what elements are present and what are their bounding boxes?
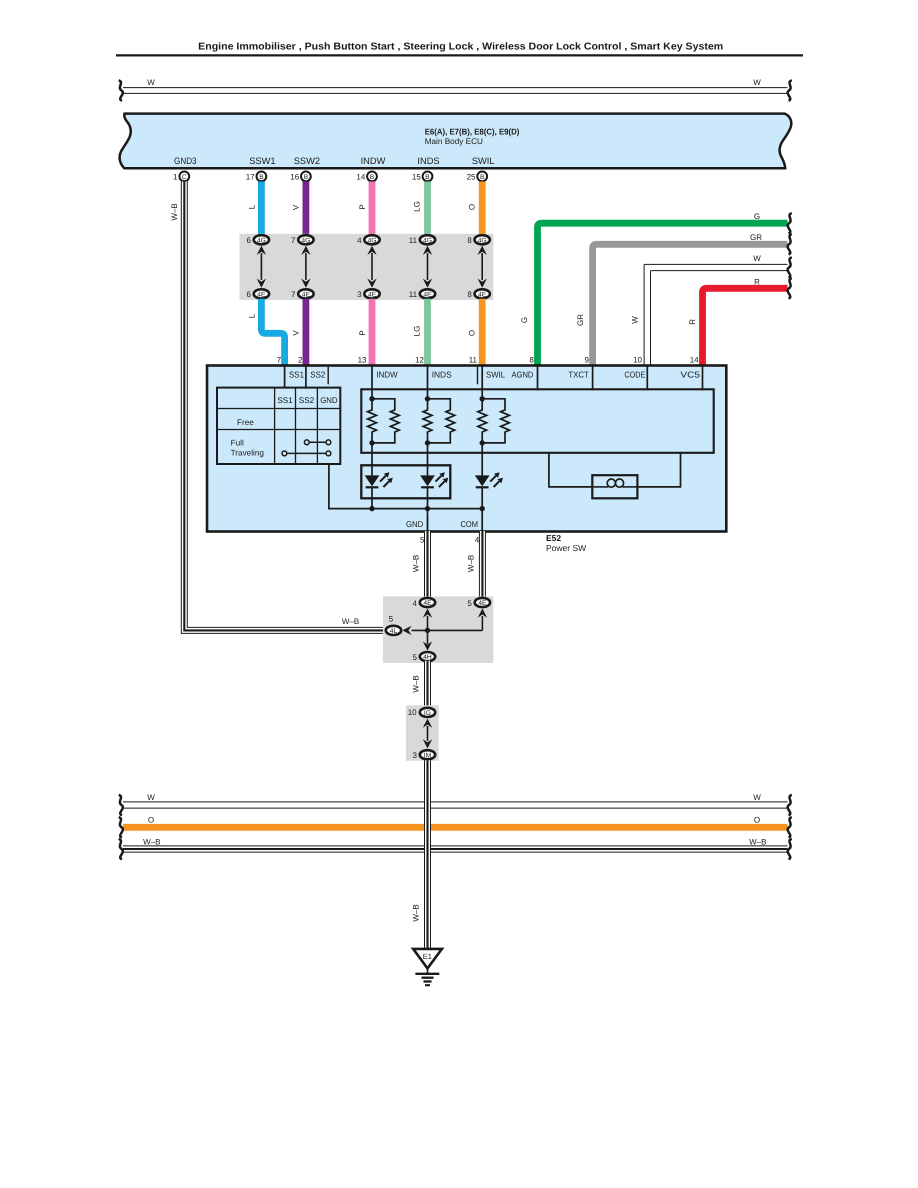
break right bus y=849 bbox=[788, 839, 792, 859]
junction stem arrows at x=261.4 bbox=[260, 253, 262, 280]
svg-text:4E: 4E bbox=[478, 291, 487, 298]
svg-text:4G: 4G bbox=[367, 237, 376, 244]
stem IG-IM bbox=[427, 726, 429, 741]
wire SWIL inside bbox=[481, 366, 483, 399]
svg-text:4: 4 bbox=[357, 236, 362, 245]
svg-text:W: W bbox=[631, 316, 640, 324]
SSW1 wire L upper segment bbox=[258, 182, 265, 236]
ECU E6/E7/E8/E9 Main Body ECU block bbox=[120, 114, 792, 169]
svg-text:17: 17 bbox=[246, 173, 255, 182]
svg-text:8: 8 bbox=[529, 355, 534, 364]
resistor pair SWIL bbox=[478, 399, 487, 443]
svg-text:7: 7 bbox=[291, 236, 296, 245]
wire O bus (orange) bbox=[123, 824, 788, 831]
svg-text:GR: GR bbox=[750, 233, 762, 242]
ground symbol E1 bbox=[413, 949, 442, 969]
svg-text:CODE: CODE bbox=[624, 370, 645, 380]
wire INDW inside bbox=[371, 366, 373, 399]
svg-text:7: 7 bbox=[291, 290, 296, 299]
svg-text:9: 9 bbox=[585, 355, 590, 364]
resistor pair INDS bbox=[423, 399, 432, 443]
svg-text:W–B: W–B bbox=[412, 675, 421, 692]
svg-text:14: 14 bbox=[356, 173, 365, 182]
stem down to 4H bbox=[427, 630, 429, 644]
break right bus y=827.3 bbox=[788, 817, 792, 837]
svg-text:11: 11 bbox=[409, 236, 418, 245]
stub AGND bbox=[537, 366, 539, 390]
INDS wire LG upper segment bbox=[424, 182, 431, 236]
wire GND3 W-B vertical+horizontal to 4L bbox=[184, 182, 385, 631]
svg-text:O: O bbox=[754, 815, 760, 824]
svg-text:4G: 4G bbox=[478, 237, 487, 244]
svg-text:B: B bbox=[259, 174, 264, 181]
svg-text:Main Body ECU: Main Body ECU bbox=[425, 137, 483, 146]
svg-text:14: 14 bbox=[690, 355, 699, 364]
switch table frame bbox=[217, 388, 340, 464]
LED box bbox=[361, 465, 450, 498]
junction connector box IG/IM bbox=[406, 705, 439, 760]
svg-text:O: O bbox=[468, 204, 477, 210]
svg-text:TXCT: TXCT bbox=[568, 370, 589, 380]
svg-text:E6(A), E7(B), E8(C), E9(D): E6(A), E7(B), E8(C), E9(D) bbox=[425, 126, 520, 136]
break left bus y=827.3 bbox=[119, 817, 123, 837]
svg-text:GR: GR bbox=[576, 314, 585, 326]
break G right bbox=[788, 213, 792, 233]
svg-text:8: 8 bbox=[467, 236, 472, 245]
svg-text:L: L bbox=[247, 313, 256, 318]
SWIL wire O upper segment bbox=[479, 182, 486, 236]
svg-text:4E: 4E bbox=[423, 291, 432, 298]
wire SWIL to LED bbox=[481, 443, 483, 476]
svg-text:W: W bbox=[753, 78, 761, 87]
svg-text:4G: 4G bbox=[257, 237, 266, 244]
svg-text:25: 25 bbox=[467, 173, 476, 182]
svg-text:INDW: INDW bbox=[361, 156, 386, 166]
svg-text:13: 13 bbox=[358, 355, 367, 364]
LED indicator INDS bbox=[420, 475, 435, 486]
svg-text:4E: 4E bbox=[257, 291, 266, 298]
svg-text:B: B bbox=[425, 174, 430, 181]
svg-text:B: B bbox=[480, 174, 485, 181]
svg-text:C: C bbox=[182, 174, 187, 181]
svg-text:11: 11 bbox=[409, 290, 418, 299]
title underline bbox=[116, 54, 803, 56]
svg-text:3: 3 bbox=[357, 290, 362, 299]
junction connector box 4E/4L/4H bbox=[383, 596, 494, 663]
stub TXCT bbox=[592, 366, 594, 390]
stub VC5 bbox=[702, 366, 704, 390]
svg-text:Free: Free bbox=[237, 418, 254, 427]
svg-text:E52: E52 bbox=[546, 533, 561, 543]
GND bus from table bbox=[329, 464, 482, 509]
Power SW top cell divider x=328.2 bbox=[327, 367, 329, 385]
junction dot middle bbox=[425, 628, 430, 633]
junction dot SWIL-COM bbox=[480, 506, 485, 511]
svg-text:LG: LG bbox=[413, 201, 422, 212]
break W right bbox=[788, 257, 792, 277]
wire INDS to LED bbox=[427, 443, 429, 476]
svg-text:6: 6 bbox=[247, 290, 252, 299]
svg-text:6: 6 bbox=[247, 236, 252, 245]
svg-text:SSW1: SSW1 bbox=[249, 156, 275, 166]
svg-text:4: 4 bbox=[412, 599, 417, 608]
svg-text:10: 10 bbox=[408, 708, 417, 717]
svg-text:GND: GND bbox=[406, 519, 423, 529]
svg-text:10: 10 bbox=[633, 355, 642, 364]
svg-text:G: G bbox=[520, 317, 529, 323]
break left bus y=849 bbox=[119, 839, 123, 859]
svg-text:SS2: SS2 bbox=[310, 370, 325, 380]
svg-text:G: G bbox=[754, 212, 760, 221]
break GR right bbox=[788, 234, 792, 254]
junction stem arrows at x=305.9 bbox=[305, 253, 307, 280]
svg-text:16: 16 bbox=[290, 173, 299, 182]
junction stem arrows at x=482.2 bbox=[481, 253, 483, 280]
svg-text:15: 15 bbox=[412, 173, 421, 182]
svg-text:5: 5 bbox=[467, 599, 472, 608]
svg-text:W: W bbox=[147, 78, 155, 87]
svg-text:12: 12 bbox=[415, 355, 424, 364]
wire SWIL LED to bus bbox=[481, 487, 483, 531]
svg-text:AGND: AGND bbox=[512, 370, 534, 380]
LED indicator SWIL bbox=[475, 475, 490, 486]
svg-text:SWIL: SWIL bbox=[472, 156, 495, 166]
coil inductor bbox=[593, 486, 608, 488]
junction dot INDW-GND bbox=[369, 506, 374, 511]
svg-text:SS1: SS1 bbox=[277, 396, 293, 405]
break R right bbox=[788, 278, 792, 298]
junction dot INDS-GND bbox=[425, 506, 430, 511]
svg-text:W–B: W–B bbox=[467, 555, 476, 572]
wire R (red) VC5 bbox=[703, 288, 788, 366]
switch contact SS2-GND bbox=[309, 441, 326, 443]
svg-text:Traveling: Traveling bbox=[231, 448, 265, 457]
resistor box bbox=[361, 389, 713, 453]
LED indicator INDW bbox=[365, 475, 380, 486]
stem right 4E bbox=[481, 616, 483, 630]
svg-text:Engine Immobiliser , Push Butt: Engine Immobiliser , Push Button Start ,… bbox=[198, 42, 723, 53]
wire INDS inside bbox=[427, 366, 429, 399]
svg-text:V: V bbox=[292, 204, 301, 210]
svg-text:LG: LG bbox=[413, 326, 422, 337]
bottom cell divider GND bbox=[427, 516, 429, 530]
svg-text:V: V bbox=[292, 330, 301, 336]
svg-text:E1: E1 bbox=[423, 952, 432, 961]
svg-text:R: R bbox=[754, 277, 760, 286]
svg-text:P: P bbox=[358, 204, 367, 209]
table col line SS2 bbox=[295, 388, 297, 464]
svg-text:4E: 4E bbox=[478, 600, 487, 607]
svg-text:5: 5 bbox=[413, 653, 418, 662]
svg-text:W–B: W–B bbox=[411, 555, 420, 572]
SSW1 wire L lower segment with jog bbox=[261, 299, 284, 366]
svg-text:5: 5 bbox=[389, 615, 394, 624]
svg-text:W: W bbox=[753, 254, 761, 263]
wire INDW to LED bbox=[371, 443, 373, 476]
junction connector box 4G/4E bbox=[240, 234, 494, 300]
INDS wire LG lower bbox=[424, 299, 431, 366]
svg-text:O: O bbox=[468, 330, 477, 336]
stub CODE bbox=[646, 366, 648, 390]
table col line GND bbox=[316, 388, 318, 464]
wire W-B 4H to IG bbox=[424, 661, 431, 709]
resistor pair INDW bbox=[368, 399, 377, 443]
svg-text:B: B bbox=[370, 174, 375, 181]
SWIL wire O lower bbox=[479, 299, 486, 366]
coil connect left bbox=[549, 453, 592, 487]
wire W-B COM pin4 bbox=[479, 531, 486, 599]
Power SW top cell divider x=477.5 bbox=[477, 367, 479, 385]
INDW wire P upper segment bbox=[369, 182, 376, 236]
svg-text:SS1: SS1 bbox=[289, 370, 304, 380]
table row line 2 bbox=[217, 429, 340, 431]
switch contact SS1-GND bbox=[287, 452, 326, 454]
stub SS1 bbox=[284, 366, 286, 389]
svg-text:IG: IG bbox=[424, 710, 431, 717]
svg-text:VC5: VC5 bbox=[680, 370, 700, 380]
svg-text:SS2: SS2 bbox=[299, 396, 315, 405]
svg-text:W: W bbox=[753, 793, 761, 802]
svg-text:GND: GND bbox=[320, 396, 337, 405]
break mark W bus top right bbox=[788, 80, 792, 100]
INDW wire P lower bbox=[369, 299, 376, 366]
svg-text:SWIL: SWIL bbox=[486, 370, 505, 380]
svg-text:11: 11 bbox=[469, 355, 478, 364]
svg-text:3: 3 bbox=[413, 751, 418, 760]
Power SW E52 block bbox=[207, 366, 726, 532]
svg-text:1: 1 bbox=[173, 173, 178, 182]
svg-text:SSW2: SSW2 bbox=[294, 156, 320, 166]
svg-text:O: O bbox=[148, 815, 154, 824]
junction horizontal wire bbox=[412, 629, 483, 631]
svg-text:Power SW: Power SW bbox=[546, 543, 586, 553]
svg-text:INDW: INDW bbox=[376, 370, 398, 380]
svg-text:W: W bbox=[147, 793, 155, 802]
junction stem arrows at x=372.0 bbox=[371, 253, 373, 280]
svg-text:INDS: INDS bbox=[432, 370, 452, 380]
svg-text:7: 7 bbox=[277, 355, 282, 364]
svg-text:4E: 4E bbox=[302, 291, 311, 298]
svg-text:8: 8 bbox=[467, 290, 472, 299]
table col line SS1 bbox=[274, 388, 276, 464]
svg-text:4G: 4G bbox=[423, 237, 432, 244]
svg-text:Full: Full bbox=[231, 438, 244, 447]
svg-text:W–B: W–B bbox=[342, 617, 359, 626]
coil box bbox=[592, 475, 637, 498]
wire INDW LED to bus bbox=[371, 487, 373, 508]
svg-text:COM: COM bbox=[461, 519, 479, 529]
svg-text:IM: IM bbox=[424, 752, 432, 759]
stub SS2 bbox=[305, 366, 307, 389]
svg-text:W–B: W–B bbox=[412, 904, 421, 921]
svg-text:2: 2 bbox=[298, 355, 303, 364]
svg-text:W–B: W–B bbox=[749, 837, 766, 846]
svg-text:B: B bbox=[304, 174, 309, 181]
break mark W bus top left bbox=[119, 80, 123, 100]
svg-text:4E: 4E bbox=[368, 291, 377, 298]
wire INDS LED to bus bbox=[427, 487, 429, 531]
wire W-B GND pin5 bbox=[424, 531, 431, 599]
wire W bus top bbox=[123, 87, 788, 89]
svg-text:INDS: INDS bbox=[417, 156, 439, 166]
wire W-B IM to ground E1 bbox=[424, 760, 431, 948]
table row line 1 bbox=[217, 408, 340, 410]
wire GR (gray) TXCT bbox=[593, 244, 788, 366]
svg-text:W–B: W–B bbox=[170, 203, 179, 220]
break right bus y=805 bbox=[788, 795, 792, 815]
svg-text:P: P bbox=[358, 330, 367, 335]
wire G (green) AGND bbox=[538, 223, 788, 366]
svg-text:W–B: W–B bbox=[143, 837, 160, 846]
svg-text:GND3: GND3 bbox=[174, 156, 197, 166]
svg-text:R: R bbox=[688, 319, 697, 325]
junction stem arrows at x=427.5 bbox=[427, 253, 429, 280]
svg-text:4E: 4E bbox=[423, 600, 432, 607]
stem left 4E bbox=[427, 616, 429, 630]
svg-text:4G: 4G bbox=[301, 237, 310, 244]
coil connect right bbox=[637, 453, 680, 487]
wire W-B bus bottom bbox=[123, 845, 788, 847]
SSW2 wire V upper segment bbox=[302, 182, 309, 236]
break left bus y=805 bbox=[119, 795, 123, 815]
wire W (white) CODE bbox=[644, 264, 787, 366]
svg-text:4H: 4H bbox=[423, 654, 432, 661]
SSW2 wire V lower bbox=[302, 299, 309, 366]
svg-text:4L: 4L bbox=[390, 628, 398, 635]
wire W bus bottom bbox=[123, 801, 788, 803]
bottom cell divider COM bbox=[481, 516, 483, 530]
svg-text:L: L bbox=[247, 204, 256, 209]
